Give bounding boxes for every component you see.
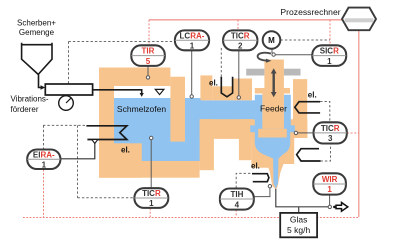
charge line: [93, 90, 142, 94]
hopper: [22, 43, 52, 88]
wire TICR3 top loop: [320, 102, 330, 122]
motor M: [263, 31, 281, 49]
wire TICR3 sensor: [298, 132, 314, 134]
level mark triangle: [155, 89, 164, 94]
channel roof right (orange): [233, 79, 252, 101]
instrument LCRA- 1: [175, 30, 209, 50]
furnace crown (orange): [99, 68, 170, 87]
node furnace bottom sensor: [150, 136, 153, 139]
wire TIH sensor: [254, 188, 270, 197]
svg-text:förderer: förderer: [11, 105, 39, 114]
wire red EIRA drop: [43, 170, 45, 218]
instrument EIRA- 1: [27, 150, 60, 170]
furnace left wall (orange): [99, 68, 114, 146]
node spout sensor: [268, 185, 271, 188]
channel roof recess (orange): [212, 86, 233, 100]
svg-text:el.: el.: [209, 79, 218, 88]
svg-text:Feeder: Feeder: [260, 104, 287, 114]
wire M to SICR: [281, 39, 331, 41]
wire LCRA sensor: [191, 50, 193, 94]
channel floor right leg (orange): [239, 119, 252, 160]
svg-text:1: 1: [149, 199, 154, 208]
furnace floor deep (orange): [99, 161, 200, 178]
Glas box: [280, 213, 317, 237]
svg-text:Schmelzofen: Schmelzofen: [117, 104, 166, 114]
melt channel (blue): [202, 100, 255, 119]
spout heater: [252, 174, 269, 182]
wire SICR sensor: [275, 54, 312, 56]
feeder bowl vessel (blue): [250, 95, 294, 189]
svg-text:M: M: [268, 36, 275, 45]
node bowl sensor: [294, 131, 297, 134]
wire red drop to TICR2: [237, 20, 239, 30]
wire red TICR1 drop: [149, 208, 151, 217]
svg-text:5 kg/h: 5 kg/h: [287, 225, 310, 235]
instrument SICR 1: [312, 45, 346, 66]
svg-text:1: 1: [42, 160, 47, 169]
wire red drop to TIR5: [148, 20, 150, 45]
wire TICR2 to electrode: [220, 48, 222, 77]
svg-text:TIH: TIH: [230, 190, 243, 199]
wire red bottom bus: [23, 217, 359, 219]
svg-text:el.: el.: [308, 91, 317, 100]
hopper arrowhead: [41, 85, 46, 89]
svg-text:TICR: TICR: [231, 31, 250, 40]
svg-text:LCRA-: LCRA-: [180, 31, 205, 40]
furnace electrode heater: [86, 126, 127, 140]
stirrer updown arrow: [273, 73, 275, 94]
wire TIR5 sensor: [147, 66, 149, 76]
wire TICR1 riser: [77, 125, 79, 197]
channel floor block (orange): [200, 119, 252, 139]
instrument TIR 5: [131, 45, 165, 66]
instrument TICR 3: [314, 122, 347, 143]
furnace floor left (orange): [99, 143, 142, 177]
svg-text:Scherben+: Scherben+: [17, 19, 56, 28]
plunger collar (orange): [255, 88, 290, 94]
stirrer rotation arrowhead: [266, 59, 271, 63]
plunger body (orange): [262, 93, 284, 129]
feeder bowl surround base (orange): [251, 119, 307, 189]
node shaft pickup: [272, 53, 275, 56]
svg-text:el.: el.: [251, 161, 260, 170]
svg-text:TICR: TICR: [321, 124, 340, 133]
wire red TIH drop: [235, 210, 237, 217]
wire LCRA to conveyor bus: [69, 41, 175, 43]
wire WIR sensor: [329, 195, 331, 206]
svg-text:1: 1: [327, 57, 332, 66]
charge arrowhead: [140, 93, 144, 97]
wire TIH control: [236, 173, 252, 188]
wire red right bus from hexagon: [358, 30, 360, 217]
bowl right wall upper (orange): [293, 79, 307, 120]
stirrer rotation arrow: [258, 53, 271, 61]
svg-text:1: 1: [327, 185, 332, 194]
instrument TICR 2: [223, 30, 257, 50]
node outlet junction circle: [328, 205, 331, 208]
svg-text:Prozessrechner: Prozessrechner: [280, 7, 340, 17]
wire drop to conveyor: [68, 42, 70, 84]
wire heater control horizontal: [43, 124, 86, 126]
channel roof left (orange): [200, 75, 212, 100]
plunger flare (orange): [258, 129, 287, 138]
wire EIRA tap: [60, 144, 94, 159]
node outlet dot: [333, 206, 336, 209]
wire EIRA branch: [43, 125, 45, 149]
outlet hollow arrow: [336, 203, 348, 212]
wire red top bus: [149, 19, 343, 21]
feeder right heater 2: [297, 149, 321, 161]
svg-text:1: 1: [190, 41, 195, 50]
svg-text:TIR: TIR: [142, 47, 155, 56]
conveyor: [45, 84, 92, 95]
instrument WIR 1: [313, 173, 346, 194]
svg-text:SICR: SICR: [320, 47, 339, 56]
roof electrode heater W: [221, 77, 232, 97]
instrument TICR 1: [134, 188, 168, 208]
furnace heater tap triangle: [92, 140, 98, 144]
svg-text:Gemenge: Gemenge: [19, 28, 55, 37]
bearing block left (gray): [246, 69, 264, 76]
wire TICR1 sensor: [150, 140, 152, 188]
svg-text:TICR: TICR: [142, 189, 161, 198]
channel floor left leg (orange): [200, 119, 214, 170]
wire TICR1 horizontal: [78, 197, 135, 199]
svg-text:Vibrations-: Vibrations-: [11, 94, 49, 103]
bearing block right (gray): [284, 69, 301, 76]
wire M shaft link: [271, 49, 273, 53]
svg-text:el.: el.: [121, 146, 130, 155]
vibrator circle: [59, 96, 74, 111]
furnace right wall / throat column (orange): [170, 77, 185, 142]
vibrator mark: [66, 98, 71, 103]
svg-text:Glas: Glas: [290, 214, 307, 224]
melt furnace basin (blue): [114, 98, 202, 161]
svg-text:3: 3: [328, 134, 333, 143]
svg-text:EIRA-: EIRA-: [33, 150, 55, 159]
node level sensor: [190, 95, 193, 98]
wire TICR2 sensor: [238, 50, 240, 95]
feeder right heater 1: [295, 102, 320, 113]
wire red drop to SICR1: [329, 20, 331, 45]
svg-text:WIR: WIR: [322, 175, 338, 184]
svg-text:4: 4: [235, 200, 240, 209]
wire TICR3 bottom loop: [321, 144, 331, 161]
wire glass outlet: [276, 189, 329, 213]
svg-text:5: 5: [146, 57, 151, 66]
node crown sensor: [146, 76, 149, 79]
plunger stem (orange): [264, 60, 284, 89]
hexagon Prozessrechner: [342, 8, 376, 31]
wire red TICR3 to right bus: [347, 132, 359, 134]
svg-text:2: 2: [238, 41, 243, 50]
stirrer updown arrowheads: [271, 68, 277, 97]
hexagon gray band: [345, 18, 374, 22]
instrument TIH 4: [220, 189, 254, 210]
node channel sensor: [237, 96, 240, 99]
